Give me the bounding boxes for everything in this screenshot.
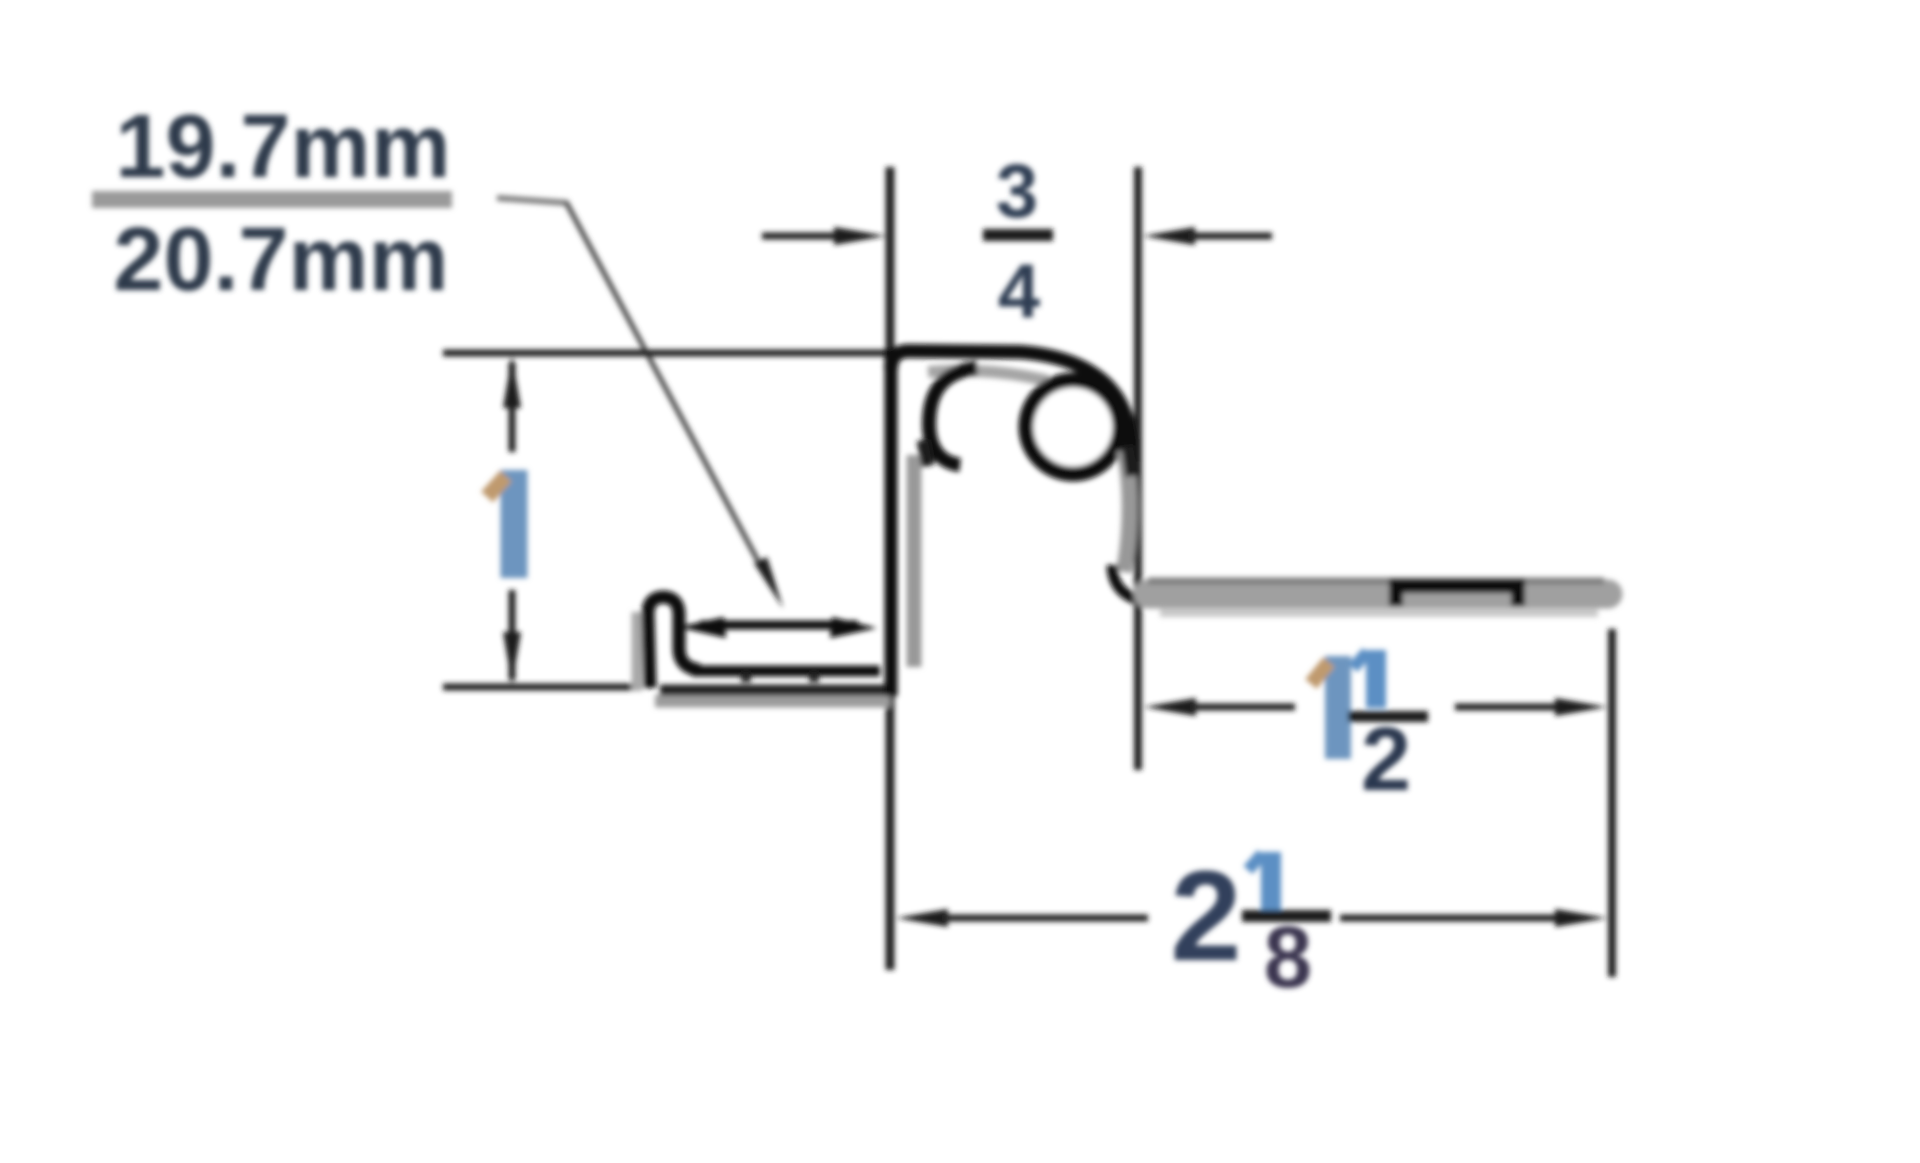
dimension line 1 (vertical) upper shaft [509, 362, 516, 452]
dim 1-1/2 right shaft [1455, 704, 1560, 711]
svg-text:4: 4 [998, 249, 1040, 334]
extension line vertical x=890 (full) [886, 167, 895, 970]
profile: corner wall-to-leg (black) [1112, 565, 1150, 602]
extension line bottom-left horizontal [443, 684, 642, 691]
arrowhead down [503, 632, 521, 684]
dim text 1/2 numerator (flag) [1353, 652, 1367, 668]
dim text 1 (custom glyph: stem) [501, 470, 528, 578]
dim 3/4 left arrow shaft [762, 233, 842, 240]
profile: vertical wall inner face (gray) [907, 455, 922, 667]
dim 2-1/8 left shaft [942, 915, 1148, 922]
dim text 1/8 numerator (stem) [1261, 852, 1281, 913]
svg-text:19.7mm: 19.7mm [115, 97, 450, 197]
dim 1-1/2 right arrowhead (points right) [1555, 698, 1607, 716]
channel inner width left arrowhead [678, 617, 726, 638]
channel inner width dimension line [700, 621, 858, 630]
profile: leg gray band [1148, 580, 1608, 609]
profile: curl end shadow [923, 440, 928, 466]
svg-text:8: 8 [1264, 909, 1312, 1006]
profile: channel inner bottom tick 1 [741, 672, 751, 682]
profile: inner curl of hook [929, 368, 977, 465]
fraction bar 3/4 [983, 229, 1053, 241]
dim 2-1/8 right shaft [1340, 915, 1560, 922]
extension line vertical x=1612 [1608, 629, 1616, 977]
fraction divider bar (gray) [92, 191, 452, 208]
svg-text:20.7mm: 20.7mm [113, 210, 448, 310]
profile: channel inner bottom tick 2 [809, 672, 819, 682]
profile: channel outer bottom dark line [660, 685, 888, 696]
dim 1-1/2 left arrowhead (points left) [1144, 698, 1196, 716]
profile: right descender gray band [1124, 450, 1130, 572]
profile: channel left lip outline [648, 597, 700, 688]
profile: channel outer bottom gray shadow [655, 695, 890, 708]
dimension line 1 (vertical) lower shaft [509, 590, 516, 680]
dim 3/4 left arrowhead (points right) [834, 227, 886, 245]
svg-text:3: 3 [996, 149, 1038, 234]
dim 3/4 right arrow shaft [1188, 233, 1272, 240]
dim 1-1/2 left shaft [1190, 704, 1295, 711]
hinge pin circle [1026, 380, 1120, 474]
extension line top horizontal [443, 350, 891, 357]
arrowhead up [503, 356, 521, 408]
channel inner width right arrowhead [830, 617, 877, 638]
dim 3/4 right arrowhead (points left) [1143, 227, 1195, 245]
fraction bar 1/8 [1242, 910, 1331, 922]
profile: gray shadow left of channel lip [632, 612, 643, 690]
svg-text:2: 2 [1361, 710, 1411, 810]
profile: vertical wall left face (black) [885, 349, 898, 696]
leader arrowhead [754, 557, 783, 608]
profile: right descender dark upper part [1128, 446, 1132, 476]
dim text 1 (custom glyph: flag) [487, 476, 506, 497]
dim text 1/2 numerator (stem) [1366, 650, 1386, 708]
profile: channel inner bottom line [692, 666, 880, 677]
leg bracket mark (black) [1396, 586, 1518, 606]
profile: gray highlight under hook top edge [928, 371, 1048, 381]
dim text 1-1/2 big 1 (flag) [1311, 662, 1329, 684]
dim 2-1/8 right arrowhead (points right) [1555, 909, 1607, 927]
dim text 1/8 numerator (flag) [1248, 854, 1262, 870]
dim text 1-1/2 big 1 (stem) [1325, 656, 1351, 759]
dim 2-1/8 left arrowhead (points left) [896, 909, 948, 927]
profile: leg darker top edge [1148, 578, 1604, 585]
profile: leg lighter bottom edge [1160, 609, 1598, 617]
fraction bar 1/2 [1348, 711, 1428, 722]
leader line horizontal segment [497, 198, 568, 203]
profile: hook top edge [891, 351, 1132, 462]
svg-text:2: 2 [1170, 845, 1241, 988]
leader line diagonal [566, 202, 758, 561]
extension line vertical x=1138 [1134, 167, 1142, 770]
